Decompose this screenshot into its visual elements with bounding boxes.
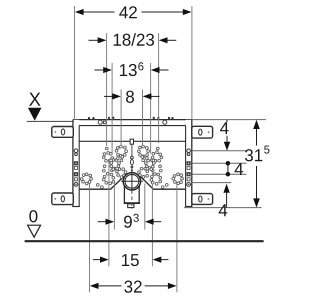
small circles on top strip xyxy=(98,120,167,124)
drain pipe body xyxy=(124,185,140,203)
pipe flange outer circle xyxy=(123,173,140,190)
dimension 4 middle right xyxy=(226,161,243,176)
extension line dim 9-3 right xyxy=(144,184,146,230)
frame top-right corner bevel xyxy=(185,120,191,126)
level marker 0 xyxy=(28,210,41,237)
drain pipe bottom tab xyxy=(128,204,134,208)
pipe crosshair xyxy=(121,173,143,190)
dimension 31-5 right xyxy=(245,120,270,208)
dimension 32 xyxy=(90,281,177,293)
extension line dim 18/23 right xyxy=(158,33,160,143)
reference line right L2 xyxy=(192,150,247,152)
extension line dim 8 right xyxy=(142,90,144,148)
extension line dim 13-6 left xyxy=(111,63,113,154)
foot bracket bottom-right xyxy=(192,194,213,205)
foot bracket top-left xyxy=(52,127,74,138)
frame top-left corner bevel xyxy=(73,120,79,126)
extension line dim 15 left xyxy=(108,162,110,266)
extension line dim 32 right xyxy=(176,182,178,292)
right rail holes xyxy=(187,149,191,186)
extension line dim 8 left xyxy=(120,90,122,149)
level marker X xyxy=(27,93,74,122)
frame top back edge xyxy=(73,119,192,121)
dimension 4 bottom right xyxy=(219,184,230,216)
reference line right L4 xyxy=(192,173,247,175)
dimension 13-6 xyxy=(95,62,169,76)
dimension 8 xyxy=(104,91,160,103)
extension line dim 42 left xyxy=(74,6,76,120)
reference line right L5 xyxy=(192,182,231,184)
reference line right L3 xyxy=(192,162,247,164)
left rail holes xyxy=(74,149,78,186)
ground line xyxy=(25,240,264,242)
dimension 15 xyxy=(93,254,168,266)
reference line right L1 xyxy=(192,119,266,121)
plate bottom edge xyxy=(79,176,185,190)
center column feature xyxy=(130,144,133,189)
extension line dim 15 right xyxy=(151,162,153,266)
extension line dim 13-6 right xyxy=(150,63,152,154)
foot bracket top-right xyxy=(192,126,213,138)
left rail xyxy=(72,120,80,207)
dimension 4 top right xyxy=(220,120,230,151)
frame top front edge xyxy=(79,125,185,127)
reference line right L6 xyxy=(184,207,262,209)
screw dots on top edge xyxy=(88,117,174,120)
plate center tab xyxy=(130,139,133,144)
dimension 9-3 xyxy=(98,214,162,228)
pipe flange inner circle xyxy=(125,174,139,188)
right rail xyxy=(185,120,192,207)
extension line dim 32 left xyxy=(89,182,91,293)
extension line dim 18/23 left xyxy=(106,33,108,146)
dimension 18/23 xyxy=(89,33,177,46)
plate top line xyxy=(79,140,185,142)
extension line dim 9-3 left xyxy=(113,184,115,230)
perforation hole clusters xyxy=(80,145,183,188)
small squares on top strip xyxy=(103,121,106,124)
extension line dim 42 right xyxy=(191,6,193,120)
foot bracket bottom-left xyxy=(52,193,74,205)
dimension 42 xyxy=(75,6,192,18)
pipe center dashed line xyxy=(131,191,133,210)
